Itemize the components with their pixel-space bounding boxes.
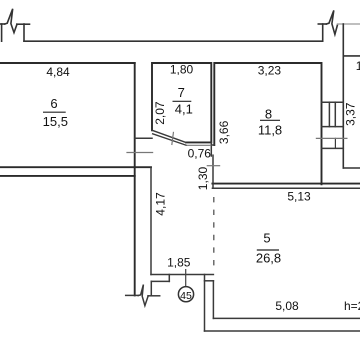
svg-text:4,84: 4,84: [46, 65, 70, 79]
svg-text:2,07: 2,07: [153, 101, 167, 125]
svg-text:1,4: 1,4: [356, 59, 360, 73]
svg-text:11,8: 11,8: [258, 123, 282, 138]
svg-text:3,37: 3,37: [343, 102, 357, 126]
svg-text:3,66: 3,66: [217, 120, 231, 144]
svg-text:1,80: 1,80: [170, 63, 194, 77]
svg-text:5,08: 5,08: [275, 299, 299, 313]
svg-text:1,85: 1,85: [167, 255, 191, 269]
svg-text:7: 7: [178, 85, 185, 100]
svg-text:h=2,5: h=2,5: [344, 299, 360, 313]
svg-text:15,5: 15,5: [43, 114, 68, 129]
svg-text:3,23: 3,23: [258, 64, 282, 78]
svg-text:4,1: 4,1: [175, 101, 193, 116]
svg-text:5: 5: [263, 231, 270, 246]
svg-text:26,8: 26,8: [256, 251, 281, 266]
svg-text:0,76: 0,76: [188, 146, 212, 160]
svg-text:45: 45: [180, 290, 192, 302]
svg-text:8: 8: [265, 107, 272, 122]
svg-text:4,17: 4,17: [153, 192, 167, 216]
svg-text:6: 6: [50, 96, 57, 111]
svg-text:5,13: 5,13: [287, 190, 311, 204]
svg-text:1,30: 1,30: [196, 166, 210, 190]
